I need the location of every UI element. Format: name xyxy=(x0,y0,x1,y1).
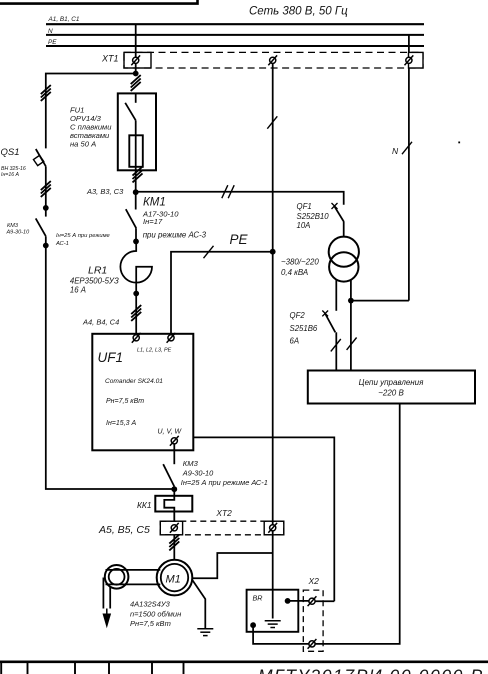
single slash on PE branch xyxy=(204,246,214,258)
wire: motor brake link to PE line xyxy=(192,553,272,578)
junction KM3 / left column xyxy=(171,486,177,492)
svg-text:S252B10: S252B10 xyxy=(297,212,330,221)
wire LR1 to UF1 xyxy=(135,294,137,335)
BR terminal dot left xyxy=(250,622,256,628)
svg-text:АС-1: АС-1 xyxy=(55,241,69,247)
svg-text:КМ3: КМ3 xyxy=(183,459,199,468)
svg-text:10А: 10А xyxy=(297,221,311,230)
svg-text:Iн=25 А при режиме АС-1: Iн=25 А при режиме АС-1 xyxy=(181,478,268,487)
wire: PE conductor vertical (XT1 to BR ground) xyxy=(272,64,274,619)
svg-text:Iн=16 А: Iн=16 А xyxy=(1,172,20,178)
feed line right xyxy=(109,586,111,609)
wire KM3 to KK1 xyxy=(173,489,175,496)
title block column dividers xyxy=(1,662,183,674)
junction N / secondary xyxy=(348,298,354,304)
wire FU1 to node A3B3C3 xyxy=(135,170,137,192)
svg-text:КК1: КК1 xyxy=(137,500,152,510)
KM1 lower wire xyxy=(135,228,137,241)
cable marks on QS1 branch xyxy=(41,85,51,101)
XT1 terminal 2 (PE) xyxy=(268,55,277,65)
wire QS1 to KM3 xyxy=(45,166,47,216)
contactor KM1 stub xyxy=(135,192,137,209)
svg-text:М1: М1 xyxy=(166,574,181,586)
XT2 solid cell left xyxy=(160,521,182,535)
single slash on QF2 left wire xyxy=(331,339,341,351)
FU1 blade xyxy=(125,103,136,121)
wire: PE branch to UF1 xyxy=(171,252,273,334)
single slash on right secondary wire xyxy=(347,338,357,350)
pulley outer circle xyxy=(105,565,129,589)
X2 terminal bottom xyxy=(308,639,317,649)
cable marks below QS1 xyxy=(41,181,51,197)
svg-text:N: N xyxy=(392,146,399,156)
svg-text:А5, В5, С5: А5, В5, С5 xyxy=(98,524,150,536)
cable marks above motor xyxy=(169,535,179,551)
junction below XT1 terminal 1 xyxy=(133,71,139,77)
frequency converter UF1 box xyxy=(92,334,193,451)
wire: feeder to QF1 xyxy=(136,192,344,205)
svg-text:КМ3: КМ3 xyxy=(7,223,19,229)
motor M1 outer circle xyxy=(157,560,193,596)
svg-text:L1, L2, L3, РЕ: L1, L2, L3, РЕ xyxy=(137,348,172,354)
single slash on N drop xyxy=(402,142,412,154)
svg-text:Х2: Х2 xyxy=(308,576,320,586)
svg-text:QF2: QF2 xyxy=(290,311,306,320)
reactor LR1 xyxy=(120,241,152,293)
svg-text:16 А: 16 А xyxy=(70,286,86,295)
svg-text:LR1: LR1 xyxy=(88,265,107,277)
svg-text:Рн=7,5 кВт: Рн=7,5 кВт xyxy=(130,619,171,628)
svg-text:Цепи управления: Цепи управления xyxy=(359,378,425,387)
XT1 terminal 1 xyxy=(131,55,140,65)
junction KM1/LR1 xyxy=(133,239,139,245)
svg-text:КМ1: КМ1 xyxy=(143,197,166,209)
svg-text:ХТ1: ХТ1 xyxy=(101,54,119,64)
svg-text:~380/~220: ~380/~220 xyxy=(281,257,319,266)
wire X2 top terminal to UF1 output line xyxy=(315,600,334,602)
XT1 terminal 3 (N) xyxy=(405,55,414,65)
junction below KM3 (left) xyxy=(43,243,49,249)
svg-text:N: N xyxy=(48,28,53,35)
wire BR left dot down to X2 bottom terminal xyxy=(253,625,309,644)
bus A1,B1,C1 xyxy=(46,23,424,25)
wire secondary left to QF2 xyxy=(335,280,337,311)
svg-text:при режиме АС-3: при режиме АС-3 xyxy=(143,230,207,239)
motor M1 inner circle xyxy=(161,564,188,591)
svg-text:6А: 6А xyxy=(290,337,300,346)
svg-text:0,4 кВА: 0,4 кВА xyxy=(281,268,308,277)
svg-text:4А132S4У3: 4А132S4У3 xyxy=(130,600,171,609)
svg-text:А9-30-10: А9-30-10 xyxy=(6,229,31,235)
wire: branch to QS1 column xyxy=(46,74,136,149)
wire BR to X2 top terminal xyxy=(288,600,309,602)
XT1 solid cell left xyxy=(124,52,151,68)
belt line bottom xyxy=(106,583,161,585)
svg-text:Iн=25 А при режиме: Iн=25 А при режиме xyxy=(56,233,111,239)
wire secondary right to control box xyxy=(350,280,352,371)
pulley inner circle xyxy=(109,569,125,585)
wire: left column down and across to motor branch xyxy=(46,236,175,489)
svg-text:U, V, W: U, V, W xyxy=(158,429,183,436)
svg-text:UF1: UF1 xyxy=(98,350,124,365)
fuse-switch FU1 box xyxy=(118,93,156,170)
svg-text:Iн=17: Iн=17 xyxy=(143,217,163,226)
node A3,B3,C3 xyxy=(133,189,139,195)
FU1 wire through fuse xyxy=(135,120,137,170)
svg-text:~220 В: ~220 В xyxy=(378,389,404,398)
svg-text:А9-30-10: А9-30-10 xyxy=(182,468,214,477)
FU1 fuse body xyxy=(129,135,143,167)
belt line top xyxy=(106,569,161,571)
contactor KM3 blade (below UF1) xyxy=(163,464,174,486)
wire N to junction xyxy=(351,300,409,302)
UF1 output terminal UVW xyxy=(170,436,179,446)
svg-text:А3, В3, С3: А3, В3, С3 xyxy=(86,187,124,196)
ground under motor xyxy=(197,629,213,636)
KK1 heater element xyxy=(164,496,174,522)
breaker QF1 blade xyxy=(334,206,344,222)
svg-text:Comander SK24.01: Comander SK24.01 xyxy=(105,378,163,385)
X2 terminal top xyxy=(308,596,317,606)
contactor KM1 blade xyxy=(126,209,136,228)
XT2 terminal 2 (PE) xyxy=(268,523,277,533)
wire: N drop at right from bus N xyxy=(408,35,410,301)
feed line left xyxy=(102,578,104,609)
svg-text:А1, В1, С1: А1, В1, С1 xyxy=(48,16,80,23)
switch QS1 blade xyxy=(36,149,46,166)
breaker QF2 blade xyxy=(325,313,336,332)
svg-text:А4, В4, С4: А4, В4, С4 xyxy=(82,318,119,327)
cable marks on main line below XT1 xyxy=(131,75,141,91)
wire QF1 to transformer xyxy=(343,222,345,238)
wire X2 bottom to control box xyxy=(315,404,400,644)
control circuits box xyxy=(308,371,475,404)
svg-text:Сеть 380 В, 50 Гц: Сеть 380 В, 50 Гц xyxy=(249,6,348,18)
svg-text:4ЕР3500-5УЗ: 4ЕР3500-5УЗ xyxy=(70,276,119,285)
XT1 solid cell right xyxy=(409,52,424,68)
terminal block XT1 dashed body xyxy=(124,52,423,68)
svg-text:n=1500 об/мин: n=1500 об/мин xyxy=(130,610,181,619)
node PE junction xyxy=(270,249,276,255)
UF1 input terminal L1 xyxy=(132,333,141,343)
bus PE xyxy=(46,45,424,47)
title block top line xyxy=(0,660,488,663)
terminal block XT2 dashed body xyxy=(160,521,283,535)
ground inside BR xyxy=(265,621,281,628)
thermal relay KK1 box xyxy=(155,496,192,512)
XT2 solid cell right xyxy=(264,521,284,535)
FU1 entry stub xyxy=(135,93,137,102)
brake unit BR box xyxy=(247,590,299,632)
single slash on PE vertical xyxy=(267,116,277,128)
svg-text:РЕ: РЕ xyxy=(48,39,57,46)
BR terminal dot right xyxy=(285,598,291,604)
connector X2 dashed body xyxy=(303,590,323,651)
transformer T secondary winding xyxy=(329,252,358,281)
wire: UF1 side output to X2 xyxy=(193,437,334,601)
feed arrow xyxy=(104,609,111,626)
svg-text:Рн=7,5 кВт: Рн=7,5 кВт xyxy=(106,398,144,405)
breaker QF2 cross mark xyxy=(322,311,328,317)
wire QF2 to control box xyxy=(335,332,337,370)
bus N xyxy=(46,34,424,36)
svg-text:QF1: QF1 xyxy=(297,202,312,211)
svg-text:S251B6: S251B6 xyxy=(290,324,318,333)
transformer T primary winding xyxy=(329,237,359,267)
breaker QF1 cross mark xyxy=(332,203,338,209)
stray dot xyxy=(458,142,460,144)
svg-text:РЕ: РЕ xyxy=(230,232,249,247)
UF1 input terminal PE xyxy=(167,333,176,343)
junction below LR1 xyxy=(133,291,139,297)
svg-text:QS1: QS1 xyxy=(1,147,20,158)
svg-text:на 50 А: на 50 А xyxy=(70,140,96,149)
frame top border xyxy=(0,0,198,4)
svg-text:ХТ2: ХТ2 xyxy=(215,508,232,518)
wire XT2 to motor xyxy=(173,535,175,560)
QS1 load-break square xyxy=(33,155,43,165)
svg-text:BR: BR xyxy=(253,594,263,603)
wire: motor frame to ground xyxy=(192,580,205,629)
wire: tap from bus A1B1C1 down to XT1 terminal 1 xyxy=(135,24,137,73)
cable marks below FU1 xyxy=(133,167,143,183)
contactor KM3 blade (left) xyxy=(36,218,46,236)
cable marks above UF1 xyxy=(131,305,141,321)
wire UF1 output to KM3 xyxy=(173,444,175,464)
svg-text:МГТУ2017РИ.00.0000 Р: МГТУ2017РИ.00.0000 Р xyxy=(258,666,484,674)
double slash on feeder xyxy=(222,185,234,198)
svg-text:Iн=15,3 А: Iн=15,3 А xyxy=(106,420,136,427)
junction on left column xyxy=(43,205,49,211)
XT2 terminal 1 xyxy=(170,523,179,533)
